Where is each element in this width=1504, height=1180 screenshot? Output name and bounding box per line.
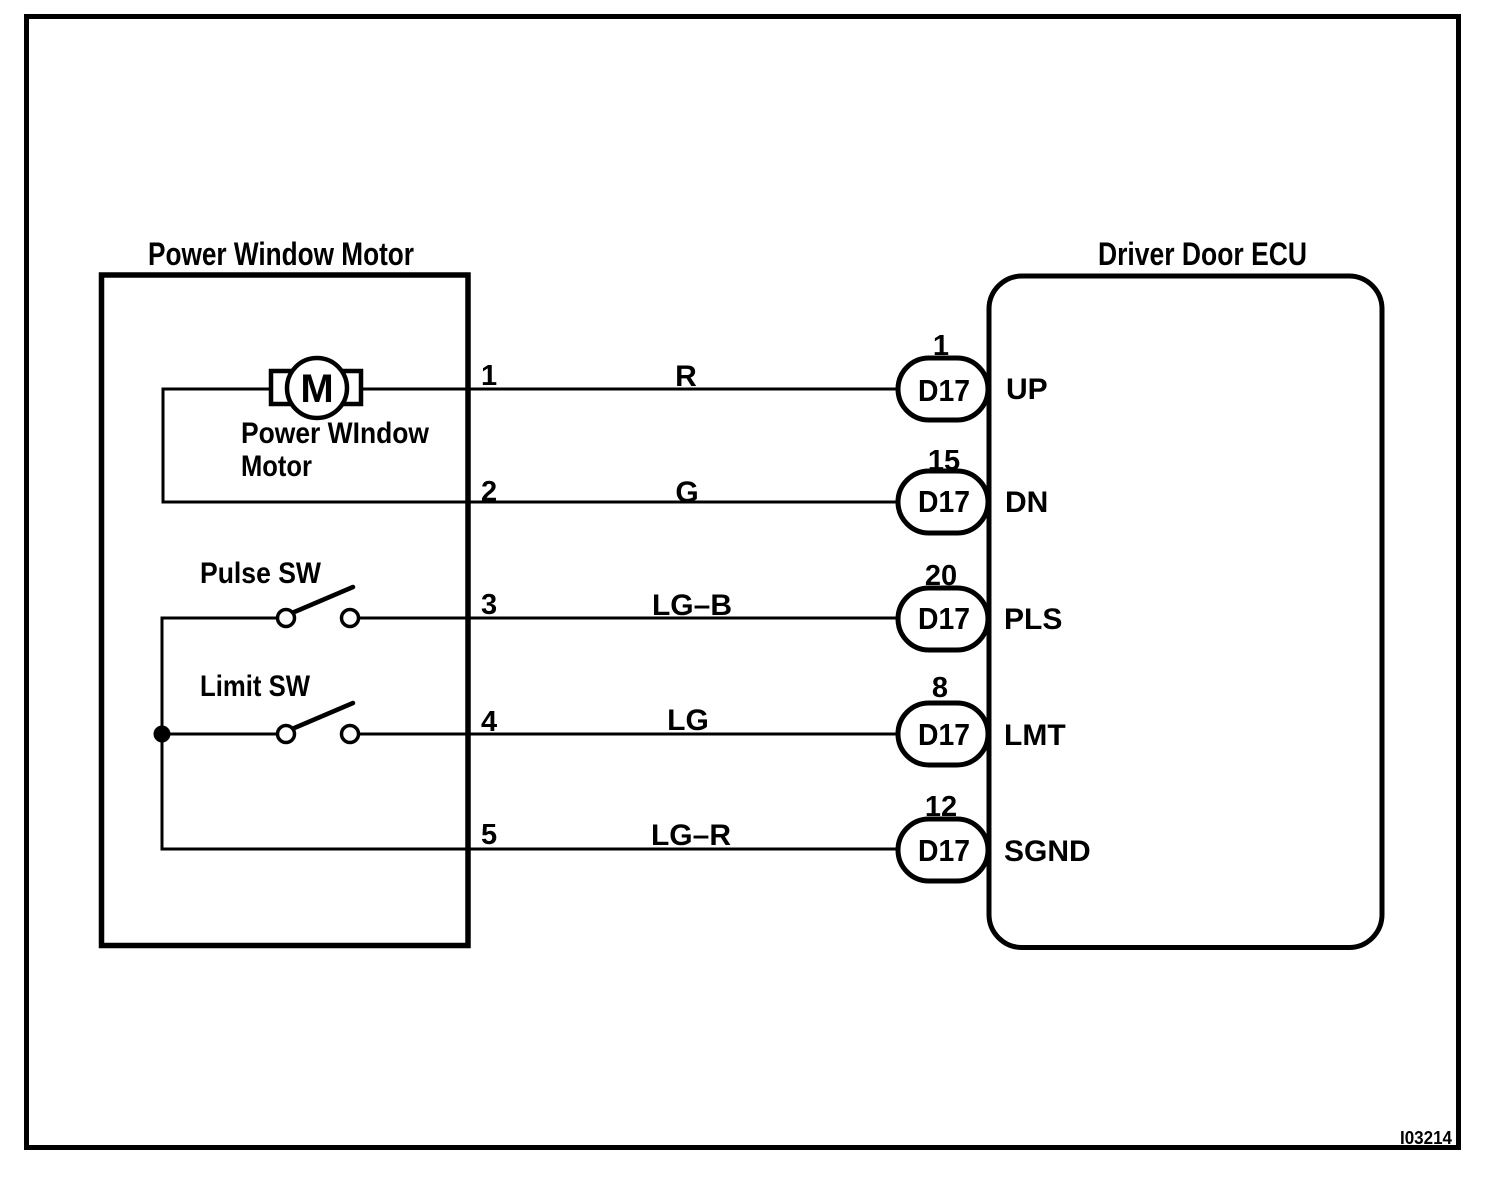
- svg-text:D17: D17: [918, 833, 970, 868]
- svg-text:PLS: PLS: [1004, 603, 1062, 636]
- svg-text:15: 15: [928, 445, 960, 477]
- svg-text:Pulse SW: Pulse SW: [200, 557, 322, 590]
- svg-text:1: 1: [481, 360, 497, 392]
- svg-text:Driver Door ECU: Driver Door ECU: [1098, 236, 1307, 272]
- svg-text:12: 12: [925, 791, 957, 823]
- svg-text:LG: LG: [667, 704, 709, 737]
- svg-text:I03214: I03214: [1400, 1128, 1452, 1148]
- svg-text:4: 4: [481, 706, 497, 738]
- svg-text:D17: D17: [918, 373, 970, 408]
- svg-text:20: 20: [925, 560, 957, 592]
- svg-text:DN: DN: [1005, 486, 1048, 519]
- svg-text:LG–B: LG–B: [652, 589, 732, 622]
- svg-text:LMT: LMT: [1004, 719, 1066, 752]
- svg-text:Power WIndow: Power WIndow: [241, 417, 430, 450]
- svg-text:Power Window Motor: Power Window Motor: [148, 236, 414, 272]
- svg-text:D17: D17: [918, 601, 970, 636]
- svg-text:LG–R: LG–R: [651, 819, 731, 852]
- svg-text:G: G: [675, 476, 698, 509]
- svg-text:3: 3: [481, 589, 497, 621]
- svg-text:R: R: [675, 360, 697, 393]
- svg-text:Motor: Motor: [241, 450, 312, 483]
- svg-text:2: 2: [481, 476, 497, 508]
- svg-text:SGND: SGND: [1004, 835, 1091, 868]
- svg-text:D17: D17: [918, 717, 970, 752]
- svg-text:UP: UP: [1006, 373, 1048, 406]
- svg-text:5: 5: [481, 819, 497, 851]
- svg-text:8: 8: [932, 672, 948, 704]
- svg-text:D17: D17: [918, 484, 970, 519]
- svg-text:M: M: [300, 367, 333, 411]
- svg-text:Limit SW: Limit SW: [200, 670, 311, 703]
- svg-text:1: 1: [933, 330, 949, 362]
